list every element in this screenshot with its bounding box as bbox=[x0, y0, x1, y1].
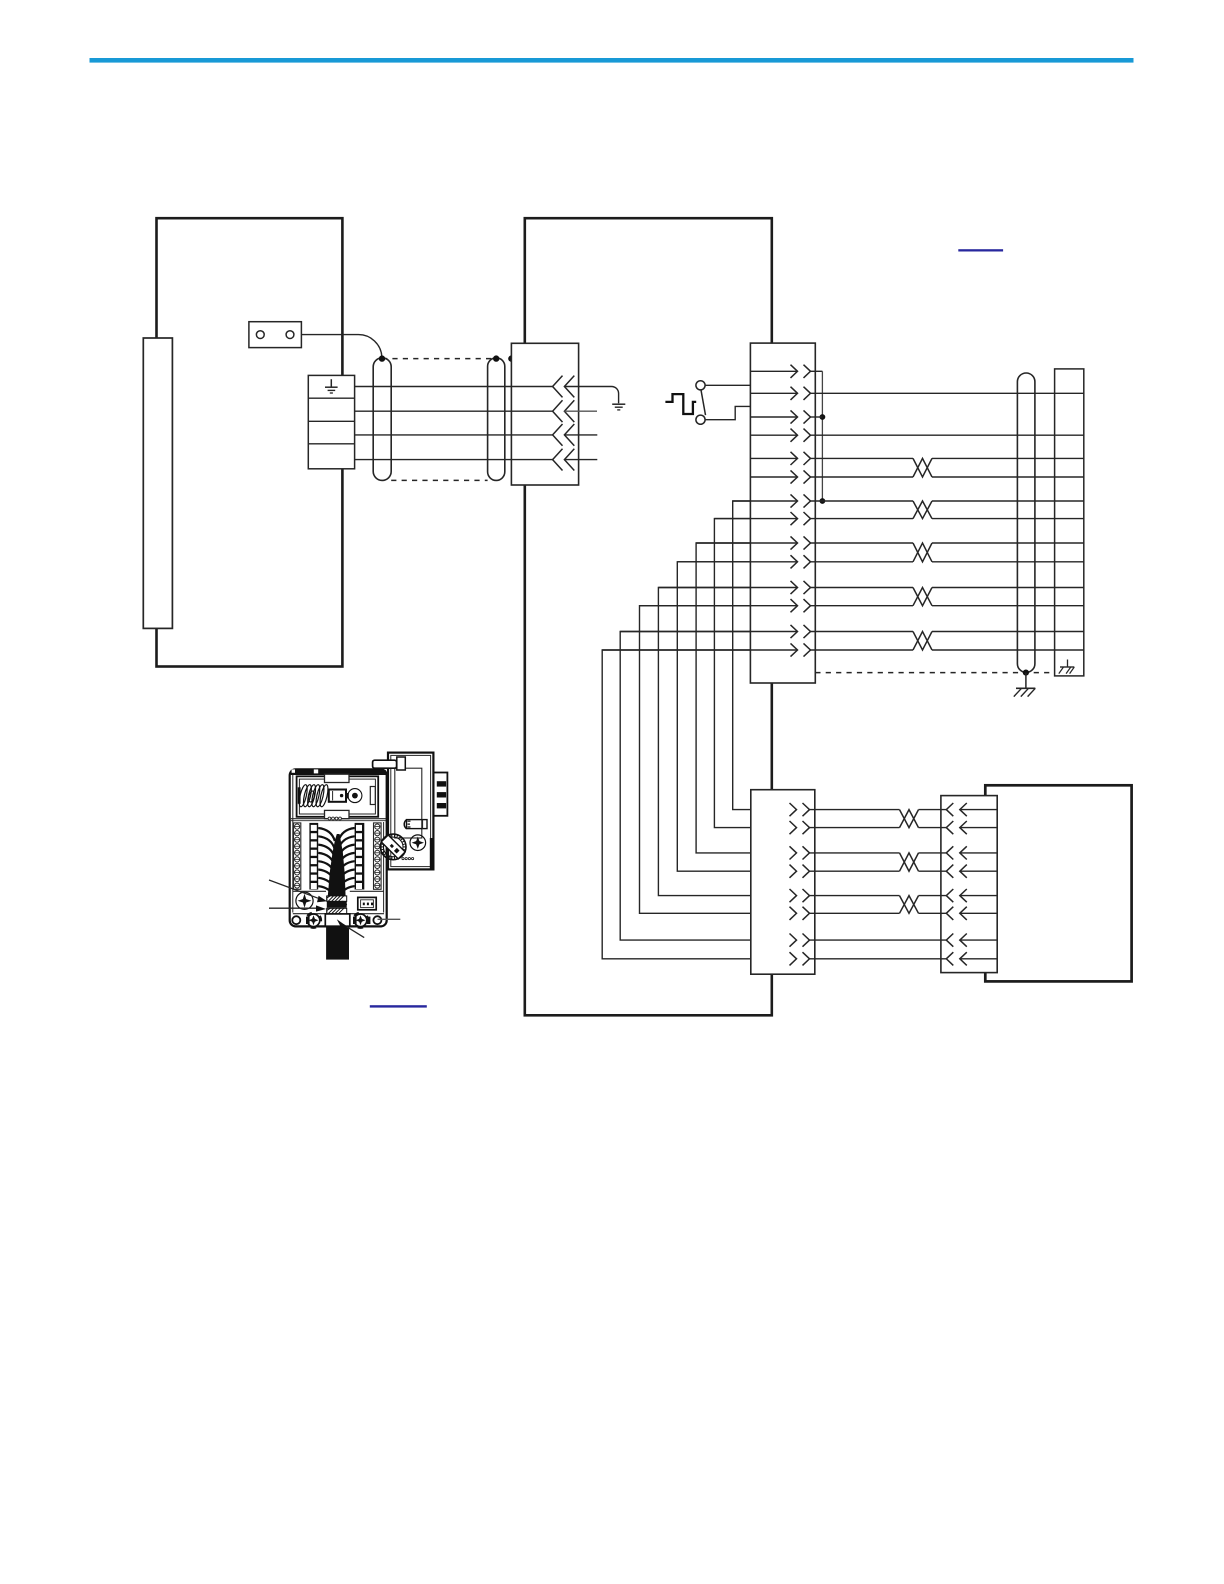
shield drain dashed (upper cable) bbox=[815, 672, 1054, 674]
leader: clamp nut bbox=[269, 880, 318, 898]
P4 pin 7 arrows bbox=[946, 934, 967, 947]
P3 pin 5 arrows bbox=[790, 889, 810, 902]
junction: shield B bbox=[493, 355, 499, 361]
P3 pin 2 arrows bbox=[790, 821, 810, 834]
P3 pin 7 arrows bbox=[790, 934, 810, 947]
wire P2 pin 14 routed to P3 bbox=[602, 650, 751, 959]
P1 pin 4 arrows bbox=[553, 449, 575, 471]
wire P2 pin 5 lead-in bbox=[750, 457, 797, 459]
wire P2 pin1 to tie bbox=[811, 370, 823, 372]
wire P2 pin 11 routed to P3 bbox=[658, 588, 750, 896]
wire P2 pin 1 lead-in bbox=[750, 370, 797, 372]
wire P2 pin 2 lead-in bbox=[750, 392, 797, 394]
wire P4 pin 2 lead-out bbox=[960, 827, 997, 829]
encoder terminal block bbox=[308, 375, 354, 468]
wire P2 pin 7 routed to P3 bbox=[733, 501, 751, 810]
twisted pair P2 pins 5/6 bbox=[811, 458, 1084, 477]
P2 pin 3 arrows bbox=[791, 410, 811, 423]
leader: mounting screw bbox=[378, 918, 401, 920]
wire P1 pin3 stub bbox=[564, 434, 597, 436]
wire P2 pin 11 lead-in bbox=[658, 587, 797, 589]
wire P2 pin 8 lead-in bbox=[714, 518, 797, 520]
hyperlink underline bottom bbox=[370, 1005, 427, 1007]
wire P2 pin 14 lead-in bbox=[602, 649, 797, 651]
P1 pin 3 arrows bbox=[553, 424, 575, 446]
P2 pin 6 arrows bbox=[791, 470, 811, 483]
wire feedback 1 (encoder to P1) bbox=[355, 386, 553, 388]
P3 pin 6 arrows bbox=[790, 907, 810, 920]
wire P2 pin 13 routed to P3 bbox=[620, 632, 751, 941]
wire P4 pin 8 lead-out bbox=[960, 958, 997, 960]
wire P4 pin 6 lead-out bbox=[960, 912, 997, 914]
P4 pin 8 arrows bbox=[946, 952, 967, 965]
P3 pin 1 arrows bbox=[790, 803, 810, 816]
wire P2 pin 4 lead-in bbox=[750, 434, 797, 436]
wire P4 pin 3 lead-out bbox=[960, 852, 997, 854]
wire P4 pin 1 lead-out bbox=[960, 809, 997, 811]
twisted pair P3-P4 pins 1/2 bbox=[810, 810, 947, 828]
cable shield (P1 end) bbox=[488, 358, 505, 481]
encoder mounting slot bbox=[143, 338, 172, 628]
junction: shield A bbox=[379, 355, 385, 361]
P2 pin 10 arrows bbox=[791, 555, 811, 568]
leader: cable clamp bbox=[343, 924, 364, 937]
wire switch B to P2 bbox=[705, 406, 750, 419]
chassis ground glyph (termination box) bbox=[1059, 660, 1075, 674]
twisted pair P2 pins 9/10 bbox=[811, 543, 1084, 562]
P4 pin 5 arrows bbox=[946, 889, 967, 902]
twisted pair P2 pins 13/14 bbox=[811, 632, 1084, 651]
junction: P1 shell bbox=[508, 355, 514, 361]
P3 pin 3 arrows bbox=[790, 846, 810, 859]
registration switch contact B bbox=[696, 415, 705, 424]
connector kit illustration (battery box and D-sub) bbox=[290, 753, 448, 960]
wire P2 pin3 to tie bbox=[811, 416, 823, 418]
wire P3 pin 7 to P4 bbox=[810, 939, 947, 941]
wire P2 pin 9 routed to P3 bbox=[696, 543, 751, 853]
twisted pair P2 pins 11/12 bbox=[811, 588, 1084, 606]
wire P1 pin4 stub bbox=[564, 459, 597, 461]
P2 pin 8 arrows bbox=[791, 512, 811, 525]
earth ground symbol (P1) bbox=[612, 404, 625, 410]
encoder case connector (two holes) bbox=[249, 322, 302, 348]
wire switch A to P2 bbox=[705, 384, 750, 386]
wire P2 pin 10 lead-in bbox=[677, 561, 797, 563]
wire P1 pin1 to earth bbox=[564, 387, 618, 404]
page header rule bbox=[90, 58, 1134, 63]
wire P2 pin2 to termination bbox=[811, 392, 1084, 394]
wire P1 pin2 stub bbox=[564, 410, 597, 412]
wire P2 pin 6 lead-in bbox=[750, 476, 797, 478]
pulse signal symbol bbox=[665, 394, 696, 414]
twisted pair P3-P4 pins 3/4 bbox=[810, 853, 947, 871]
wire P4 pin 4 lead-out bbox=[960, 870, 997, 872]
junction tie pin7 bbox=[820, 498, 826, 504]
cable shield (encoder end) bbox=[373, 358, 391, 481]
wire P2 pin4 to termination bbox=[811, 434, 1084, 436]
wire P2 pin 8 routed to P3 bbox=[714, 519, 750, 828]
P3 pin 4 arrows bbox=[790, 865, 810, 878]
P2 pin 1 arrows bbox=[791, 365, 811, 378]
P1 pin 2 arrows bbox=[553, 400, 575, 422]
P4 pin 4 arrows bbox=[946, 865, 967, 878]
P2 pin 11 arrows bbox=[791, 581, 811, 594]
cable shield (upper I/O cable) bbox=[1017, 373, 1035, 672]
P2 pin 4 arrows bbox=[791, 429, 811, 442]
wire P3 pin 8 to P4 bbox=[810, 958, 947, 960]
wire P2 pin 12 routed to P3 bbox=[640, 606, 751, 914]
P2 pin 2 arrows bbox=[791, 387, 811, 400]
leader: strain relief bbox=[269, 907, 316, 909]
connector P1 body bbox=[511, 343, 578, 485]
registration switch blade bbox=[701, 390, 706, 415]
P1 pin 1 arrows bbox=[553, 376, 575, 398]
wire P2 pin 9 lead-in bbox=[696, 542, 797, 544]
drive box bbox=[525, 218, 772, 1015]
hyperlink underline top right bbox=[958, 249, 1003, 251]
P2 pin 14 arrows bbox=[791, 643, 811, 656]
connector P3 body (drive outputs) bbox=[751, 790, 815, 975]
chassis ground (shield) bbox=[1014, 673, 1036, 697]
twisted pair P2 pins 7/8 bbox=[811, 501, 1084, 519]
connector P2 body (drive I/O) bbox=[750, 343, 815, 683]
junction shield drain bbox=[1023, 670, 1029, 676]
P2 pin 9 arrows bbox=[791, 536, 811, 549]
P2 pin 13 arrows bbox=[791, 625, 811, 638]
wire P2 pin 7 lead-in bbox=[733, 500, 798, 502]
P4 pin 1 arrows bbox=[946, 803, 967, 816]
wire P2 pin 12 lead-in bbox=[640, 605, 798, 607]
earth ground symbol (terminal 1) bbox=[325, 379, 338, 393]
P2 pin 5 arrows bbox=[791, 452, 811, 465]
shield bottom dashed link bbox=[391, 479, 487, 481]
P4 pin 3 arrows bbox=[946, 846, 967, 859]
connector P4 body (controller inputs) bbox=[941, 796, 997, 973]
P2 pin 12 arrows bbox=[791, 599, 811, 612]
P3 pin 8 arrows bbox=[790, 952, 810, 965]
wire case-to-shield bbox=[301, 335, 382, 357]
net tie vertical bbox=[821, 371, 823, 501]
motor/encoder box bbox=[157, 218, 343, 666]
shield termination box bbox=[1055, 369, 1084, 676]
wire P4 pin 5 lead-out bbox=[960, 895, 997, 897]
wire P2 pin 3 lead-in bbox=[750, 416, 797, 418]
wire P2 pin 10 routed to P3 bbox=[677, 562, 751, 871]
P4 pin 6 arrows bbox=[946, 907, 967, 920]
wire P2 pin 13 lead-in bbox=[620, 631, 797, 633]
wire feedback 2 (encoder to P1) bbox=[355, 410, 553, 412]
controller box bbox=[985, 785, 1131, 981]
wire feedback 4 (encoder to P1) bbox=[355, 459, 553, 461]
twisted pair P3-P4 pins 5/6 bbox=[810, 896, 947, 914]
P4 pin 2 arrows bbox=[946, 821, 967, 834]
wire feedback 3 (encoder to P1) bbox=[355, 434, 553, 436]
wire P4 pin 7 lead-out bbox=[960, 939, 997, 941]
junction tie pin3 bbox=[820, 414, 826, 420]
P2 pin 7 arrows bbox=[791, 494, 811, 507]
registration switch contact A bbox=[696, 381, 705, 390]
shield drain dashed link bbox=[382, 358, 496, 360]
